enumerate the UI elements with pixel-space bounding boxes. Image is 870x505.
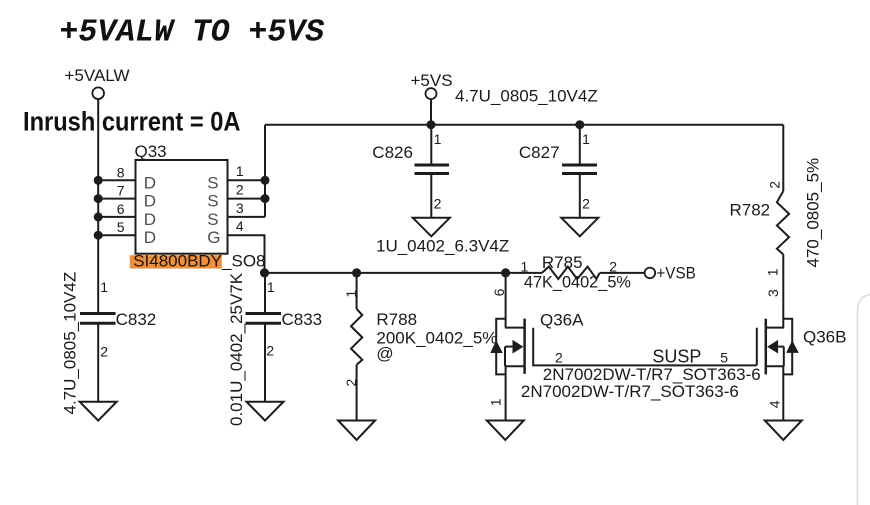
svg-text:Q36B: Q36B bbox=[803, 328, 846, 347]
svg-text:4.7U_0805_10V4Z: 4.7U_0805_10V4Z bbox=[455, 87, 598, 106]
svg-text:8: 8 bbox=[117, 164, 125, 180]
ground Q36A bbox=[487, 421, 524, 440]
svg-text:6: 6 bbox=[117, 201, 125, 217]
wire vertical rail from top bus to pin 3 bbox=[264, 125, 266, 217]
capacitor C833 bbox=[246, 273, 323, 402]
wire Q33 left pin stubs bbox=[98, 179, 135, 181]
svg-text:1: 1 bbox=[100, 279, 108, 295]
svg-text:4: 4 bbox=[766, 400, 782, 408]
transistor Q33 body bbox=[135, 142, 228, 254]
svg-text:1: 1 bbox=[764, 268, 780, 276]
diode stub + arrow bbox=[505, 346, 513, 348]
svg-text:D: D bbox=[144, 192, 156, 211]
channel bar bbox=[765, 319, 768, 375]
drain stub bbox=[505, 327, 525, 329]
svg-text:SUSP: SUSP bbox=[652, 346, 701, 366]
wire +5VALW down to C832 bbox=[97, 99, 99, 314]
svg-text:2: 2 bbox=[766, 181, 782, 189]
junction dot R788 bbox=[352, 268, 361, 277]
svg-text:2: 2 bbox=[582, 195, 590, 211]
power port +5VS bbox=[411, 71, 453, 125]
svg-text:+5VALW: +5VALW bbox=[65, 66, 130, 85]
svg-text:1: 1 bbox=[267, 279, 275, 295]
svg-text:2N7002DW-T/R7_SOT363-6: 2N7002DW-T/R7_SOT363-6 bbox=[521, 382, 739, 401]
ground C832 bbox=[80, 402, 117, 421]
svg-text:Q33: Q33 bbox=[135, 142, 167, 161]
svg-text:R782: R782 bbox=[730, 201, 771, 220]
junction dot C833 bbox=[260, 268, 269, 277]
svg-text:D: D bbox=[144, 228, 156, 247]
svg-text:SI4800BDY_SO8: SI4800BDY_SO8 bbox=[133, 252, 265, 271]
channel bar bbox=[523, 319, 526, 374]
resistor R788 bbox=[343, 273, 498, 421]
body arrow up bbox=[490, 340, 503, 353]
svg-text:1: 1 bbox=[236, 163, 244, 179]
drain stub bbox=[766, 327, 784, 329]
svg-text:S: S bbox=[207, 192, 218, 211]
source stub bbox=[766, 365, 784, 367]
transistor Q36A bbox=[488, 273, 757, 421]
svg-text:2: 2 bbox=[555, 350, 563, 366]
wire Q33 right pins 1,2 to vertical rail bbox=[228, 179, 266, 181]
svg-text:C832: C832 bbox=[116, 310, 157, 329]
svg-text:3: 3 bbox=[765, 289, 781, 297]
svg-text:1: 1 bbox=[582, 131, 590, 147]
capacitor C832 bbox=[80, 279, 156, 402]
svg-text:+5VS: +5VS bbox=[411, 71, 453, 90]
svg-text:Inrush current = 0A: Inrush current = 0A bbox=[23, 106, 241, 136]
source wire down bbox=[505, 366, 507, 420]
svg-text:5: 5 bbox=[720, 350, 728, 366]
junction dot +5VS on bus bbox=[427, 120, 436, 129]
svg-text:2: 2 bbox=[266, 343, 274, 359]
gate bar bbox=[756, 328, 758, 366]
svg-text:5: 5 bbox=[117, 219, 125, 235]
wire pin 4 to bottom bus bbox=[228, 235, 265, 273]
gate bar + gate wire (SUSP) bbox=[533, 328, 757, 366]
ground C833 bbox=[247, 402, 284, 421]
svg-text:7: 7 bbox=[117, 183, 125, 199]
svg-text:R788: R788 bbox=[376, 310, 417, 329]
svg-text:+VSB: +VSB bbox=[656, 264, 695, 283]
svg-text:S: S bbox=[207, 210, 218, 229]
svg-text:1: 1 bbox=[434, 131, 442, 147]
wire top bus +5VS bbox=[265, 124, 783, 126]
ground Q36B bbox=[765, 421, 802, 440]
resistor R785 bbox=[521, 253, 645, 291]
junction dot Q36A drain bbox=[501, 268, 510, 277]
svg-text:2: 2 bbox=[236, 182, 244, 198]
wire bottom bus bbox=[265, 272, 543, 274]
svg-text:@: @ bbox=[376, 344, 393, 363]
ground C827 bbox=[561, 218, 598, 237]
svg-text:1U_0402_6.3V4Z: 1U_0402_6.3V4Z bbox=[376, 237, 509, 256]
svg-text:C833: C833 bbox=[282, 310, 323, 329]
svg-text:C827: C827 bbox=[519, 143, 560, 162]
value SI4800BDY_SO8 highlighted bbox=[130, 252, 266, 271]
svg-text:D: D bbox=[144, 173, 156, 192]
body arrow up bbox=[786, 340, 799, 353]
junction dots on +5VALW rail bbox=[94, 176, 103, 185]
ground C826 bbox=[413, 218, 450, 237]
transistor Q36B bbox=[757, 319, 847, 421]
svg-text:2: 2 bbox=[100, 344, 108, 360]
power port +5VALW bbox=[65, 66, 130, 99]
svg-text:3: 3 bbox=[236, 200, 244, 216]
resistor R782 bbox=[730, 125, 790, 328]
svg-text:470_0805_5%: 470_0805_5% bbox=[804, 158, 823, 268]
svg-text:1: 1 bbox=[488, 398, 504, 406]
capacitor C826 bbox=[372, 125, 449, 218]
capacitor C827 bbox=[519, 125, 597, 218]
svg-text:1: 1 bbox=[343, 290, 359, 298]
body loop bbox=[784, 319, 792, 375]
svg-text:4.7U_0805_10V4Z: 4.7U_0805_10V4Z bbox=[61, 272, 80, 415]
svg-text:2: 2 bbox=[343, 379, 359, 387]
svg-text:200K_0402_5%: 200K_0402_5% bbox=[376, 328, 497, 347]
svg-text:0.01U_0402_25V7K: 0.01U_0402_25V7K bbox=[227, 272, 246, 426]
svg-text:6: 6 bbox=[491, 288, 507, 296]
svg-text:4: 4 bbox=[236, 218, 244, 234]
junction dot C827 on bus bbox=[575, 120, 584, 129]
junction dots pins 1,2 bbox=[261, 176, 270, 185]
svg-text:47K_0402_5%: 47K_0402_5% bbox=[524, 272, 631, 291]
svg-text:2: 2 bbox=[434, 195, 442, 211]
source wire down bbox=[782, 366, 784, 420]
svg-text:D: D bbox=[144, 210, 156, 229]
ground R788 bbox=[338, 421, 375, 440]
svg-text:C826: C826 bbox=[372, 143, 413, 162]
svg-text:S: S bbox=[207, 173, 218, 192]
drain wire from bus bbox=[505, 273, 507, 328]
UI panel rounded corner (right edge) bbox=[857, 295, 870, 505]
svg-text:G: G bbox=[207, 228, 220, 247]
body loop bbox=[496, 319, 505, 375]
source stub bbox=[505, 365, 525, 367]
wire pin 3 stub bbox=[228, 216, 266, 218]
svg-text:R785: R785 bbox=[542, 253, 583, 272]
svg-text:+5VALW TO +5VS: +5VALW TO +5VS bbox=[60, 16, 325, 51]
svg-text:Q36A: Q36A bbox=[540, 310, 584, 329]
node +VSB bbox=[645, 264, 696, 283]
diode stub + arrow bbox=[778, 346, 784, 348]
